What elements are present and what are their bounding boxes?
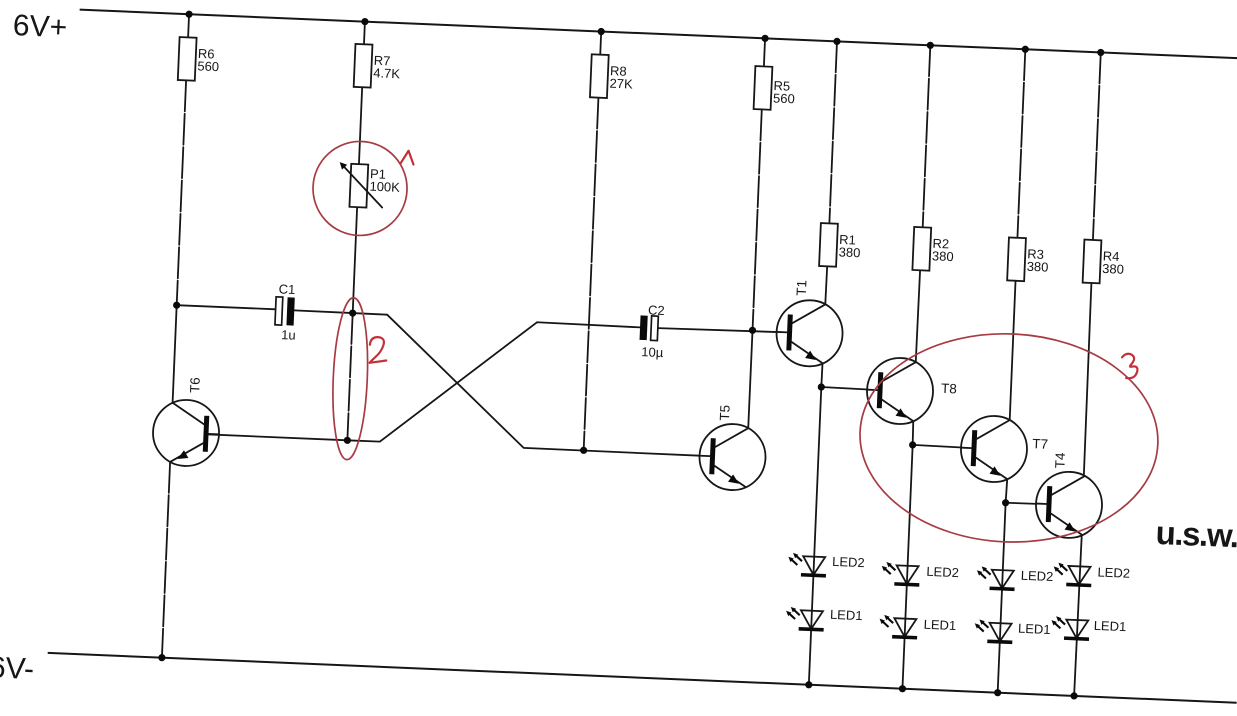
svg-text:u.s.w.: u.s.w. — [1155, 514, 1237, 554]
svg-text:4.7K: 4.7K — [373, 65, 401, 81]
svg-text:C2: C2 — [648, 302, 665, 318]
svg-text:LED2: LED2 — [832, 554, 865, 570]
svg-text:380: 380 — [932, 248, 954, 264]
svg-text:C1: C1 — [278, 281, 295, 297]
svg-text:LED1: LED1 — [923, 617, 956, 633]
svg-text:560: 560 — [197, 58, 219, 74]
svg-text:380: 380 — [1102, 261, 1124, 277]
svg-text:LED1: LED1 — [1018, 621, 1051, 637]
svg-text:LED1: LED1 — [1093, 618, 1126, 634]
svg-text:6V+: 6V+ — [12, 9, 68, 44]
svg-text:6V-: 6V- — [0, 651, 35, 686]
svg-text:27K: 27K — [609, 76, 633, 92]
svg-text:100K: 100K — [369, 179, 400, 195]
svg-text:T4: T4 — [1052, 452, 1068, 469]
svg-text:T5: T5 — [717, 405, 733, 421]
svg-text:LED2: LED2 — [926, 564, 959, 580]
svg-text:T1: T1 — [794, 280, 810, 296]
svg-text:T6: T6 — [187, 377, 203, 393]
svg-text:LED2: LED2 — [1020, 568, 1053, 584]
svg-text:T7: T7 — [1032, 436, 1048, 452]
svg-text:LED1: LED1 — [830, 607, 863, 623]
svg-text:380: 380 — [838, 244, 860, 260]
svg-text:LED2: LED2 — [1097, 564, 1130, 580]
svg-text:10µ: 10µ — [641, 344, 664, 360]
svg-text:1u: 1u — [281, 327, 296, 343]
svg-text:T8: T8 — [941, 381, 957, 397]
svg-text:380: 380 — [1026, 259, 1048, 275]
svg-text:560: 560 — [773, 90, 795, 106]
